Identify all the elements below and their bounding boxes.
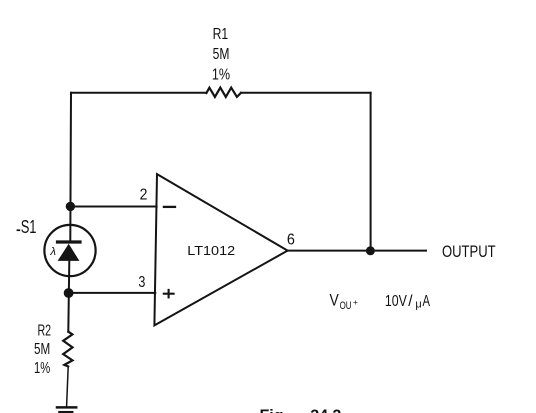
photodiode S1 cathode bar <box>58 240 81 243</box>
junction node: S1 top / pin 2 <box>66 202 75 211</box>
svg-text:A: A <box>423 293 431 310</box>
svg-text:V: V <box>330 292 339 310</box>
wire: R2 to ground <box>67 367 69 407</box>
svg-text:+: + <box>353 297 358 307</box>
svg-text:μ: μ <box>415 299 421 311</box>
op-amp non-inverting input plus sign <box>164 290 174 298</box>
wire: output from pin 6 <box>288 250 426 252</box>
label R1 value (R1 5M 1%) <box>212 26 230 84</box>
wire: pin 2 input wire <box>71 206 157 208</box>
ground symbol <box>57 407 76 412</box>
wire: photodiode to lower junction <box>68 261 69 332</box>
label VOUT <box>330 292 359 313</box>
wire: pin 3 input wire <box>69 292 156 294</box>
junction node: S1 bottom / pin 3 / R2 <box>64 288 74 298</box>
op-amp inverting input minus sign <box>164 206 175 208</box>
svg-text:24.2: 24.2 <box>310 408 341 413</box>
svg-text:Fig.: Fig. <box>260 408 288 413</box>
resistor R1 <box>206 88 241 97</box>
label R2 value (R2 5M 1%) <box>34 323 51 377</box>
svg-text:OU: OU <box>340 300 352 312</box>
svg-text:1%: 1% <box>212 67 230 84</box>
svg-text:2: 2 <box>140 187 148 204</box>
svg-text:10V: 10V <box>385 293 408 310</box>
junction node: output / feedback <box>366 246 375 255</box>
svg-text:1%: 1% <box>34 360 50 377</box>
wire: top feedback horizontal right segment <box>241 92 371 94</box>
svg-text:LT1012: LT1012 <box>187 244 235 258</box>
svg-text:S1: S1 <box>21 217 37 237</box>
svg-text:5M: 5M <box>213 46 230 63</box>
svg-text:OUTPUT: OUTPUT <box>442 243 496 261</box>
photodiode S1 circle <box>44 225 95 276</box>
op-amp U1 LT1012 triangle <box>154 174 287 325</box>
wire: feedback vertical right <box>370 93 372 251</box>
svg-text:3: 3 <box>138 274 145 291</box>
svg-text:λ: λ <box>49 246 56 258</box>
wire: left vertical (feedback corner down to photodiode) <box>69 93 72 241</box>
wire: top feedback horizontal left segment <box>71 92 206 94</box>
caption Fig. 24.2 (clipped at page bottom) <box>260 408 342 413</box>
resistor R2 <box>63 332 72 367</box>
svg-text:R1: R1 <box>213 26 229 43</box>
photodiode S1 triangle (anode) <box>58 244 80 261</box>
svg-text:R2: R2 <box>38 323 52 340</box>
svg-text:5M: 5M <box>34 341 50 358</box>
label 10V/uA gain <box>385 293 431 311</box>
svg-text:/: / <box>408 293 413 310</box>
svg-text:6: 6 <box>287 232 295 249</box>
label S1 designator <box>17 217 37 237</box>
